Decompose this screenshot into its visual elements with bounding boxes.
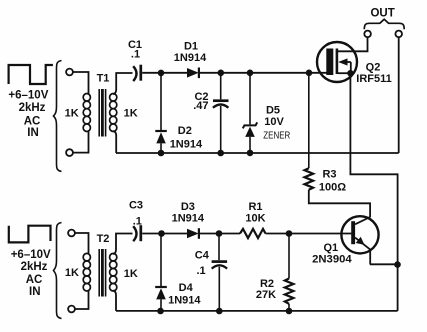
label Q2 IRF511 — [356, 62, 391, 85]
input square-wave icon (top) — [9, 65, 53, 84]
wire R3 to Q1 collector — [309, 190, 370, 217]
wire Q1 emitter to junction — [370, 263, 398, 265]
terminal (T1 primary bottom) — [66, 149, 73, 156]
label C3 .1 — [129, 200, 143, 228]
label +6-10V 2kHz AC IN (bottom) — [11, 249, 51, 298]
node dot (D4 bottom) — [157, 308, 164, 315]
label D3 1N914 — [172, 201, 205, 224]
svg-text:10V: 10V — [264, 116, 284, 128]
label R3 100ohm — [319, 169, 346, 194]
brace (top input) — [54, 61, 62, 172]
svg-text:IN: IN — [27, 127, 39, 139]
svg-text:IRF511: IRF511 — [356, 73, 391, 85]
wire bottom rail — [116, 310, 398, 312]
svg-text:100Ω: 100Ω — [319, 181, 346, 193]
transformer T2 secondary winding — [110, 253, 117, 291]
wire D2 branch — [160, 73, 162, 130]
diode D3 — [187, 228, 199, 239]
svg-text:D2: D2 — [178, 125, 192, 137]
svg-text:Q2: Q2 — [366, 62, 381, 74]
mosfet Q2 — [317, 37, 368, 82]
label Q1 2N3904 — [312, 242, 352, 265]
node dot (D5 junction) — [247, 70, 254, 77]
svg-text:AC: AC — [26, 274, 43, 286]
node dot (C3/D4 junction) — [158, 230, 165, 237]
svg-text:1K: 1K — [65, 267, 79, 279]
terminal (OUT left) — [364, 31, 371, 38]
svg-text:AC: AC — [24, 116, 41, 128]
wire top rail (C1 to D1) — [142, 72, 187, 74]
transformer T1 core — [99, 89, 105, 137]
wire lower rail of top section — [116, 152, 399, 154]
wire R2 to bottom rail — [288, 304, 290, 311]
svg-text:D1: D1 — [184, 41, 198, 53]
wire D5 branch — [249, 73, 251, 125]
node dot (Q1 emitter junction) — [394, 261, 401, 268]
resistor R3 — [305, 168, 314, 190]
capacitor C3 — [133, 225, 141, 241]
capacitor C4 — [212, 262, 228, 311]
label C2 .47 — [193, 91, 208, 112]
wire OUT right to lower rail — [398, 37, 400, 153]
node dot (C2 bottom) — [217, 150, 224, 157]
label D5 10V ZENER — [263, 104, 290, 141]
label R2 27K — [256, 278, 276, 301]
svg-text:2kHz: 2kHz — [19, 102, 46, 114]
terminal (OUT right) — [395, 31, 402, 38]
wire T1 secondary bottom lead — [113, 131, 116, 153]
svg-text:R3: R3 — [322, 169, 336, 181]
resistor R2 — [285, 279, 294, 304]
label D4 1N914 — [168, 282, 201, 306]
wire T2 primary bottom — [75, 291, 89, 309]
node dot (R3 junction) — [306, 70, 313, 77]
transistor Q1 — [341, 216, 378, 264]
svg-text:D4: D4 — [179, 282, 194, 294]
terminal (T1 primary top) — [66, 69, 73, 76]
zener diode D5 — [243, 122, 257, 152]
svg-text:T1: T1 — [97, 73, 110, 85]
svg-text:10K: 10K — [245, 212, 265, 224]
wire T2 secondary top lead — [113, 234, 132, 255]
brace (OUT) — [364, 19, 404, 29]
wire T1 primary top — [73, 72, 89, 94]
wire mid rail (C3 to D3) — [142, 233, 187, 235]
node dot (C2 junction) — [218, 70, 225, 77]
diode D4 — [155, 287, 167, 311]
transformer T2 primary winding — [83, 253, 90, 291]
svg-text:Q1: Q1 — [323, 242, 338, 254]
svg-text:T2: T2 — [97, 233, 110, 245]
resistor R1 — [240, 229, 266, 238]
terminal (T2 primary bottom) — [68, 306, 75, 313]
svg-text:OUT: OUT — [370, 8, 394, 20]
wire C2 branch — [220, 73, 222, 100]
svg-text:1N914: 1N914 — [174, 52, 207, 64]
svg-text:C3: C3 — [129, 200, 143, 212]
node dot (C1/D2 junction) — [158, 70, 165, 77]
wire mid rail (R1 to Q1 base) — [266, 233, 352, 235]
transformer T1 primary winding — [83, 94, 90, 132]
wire Q2 source down — [350, 73, 397, 311]
capacitor C1 — [133, 65, 141, 81]
svg-text:.47: .47 — [193, 100, 208, 112]
svg-text:.1: .1 — [197, 265, 206, 277]
transformer T2 core — [99, 249, 105, 297]
input square-wave icon (bottom) — [9, 226, 51, 243]
wire T1 primary bottom — [73, 132, 89, 153]
wire C4 branch — [218, 234, 220, 261]
svg-text:1K: 1K — [124, 268, 138, 280]
svg-text:1N914: 1N914 — [168, 294, 201, 306]
wire R2 branch — [288, 234, 290, 279]
terminal (T2 primary top) — [68, 230, 75, 237]
node dot (D2 bottom) — [158, 150, 165, 157]
brace (bottom input) — [54, 223, 62, 319]
label C1 .1 — [128, 39, 142, 61]
node dot (R2 bottom) — [286, 308, 293, 315]
wire T1 secondary top lead — [113, 73, 132, 94]
svg-text:.1: .1 — [131, 49, 140, 61]
wire T2 primary top — [75, 233, 89, 254]
capacitor C2 — [213, 101, 229, 153]
svg-text:2N3904: 2N3904 — [312, 253, 352, 265]
svg-text:1K: 1K — [65, 108, 79, 120]
node dot (C4 bottom) — [216, 308, 223, 315]
svg-text:D5: D5 — [266, 104, 280, 116]
svg-text:+6–10V: +6–10V — [11, 249, 51, 261]
svg-text:IN: IN — [29, 286, 41, 298]
svg-text:ZENER: ZENER — [263, 130, 290, 141]
diode D1 — [187, 68, 199, 79]
svg-text:1N914: 1N914 — [170, 138, 203, 150]
svg-text:1K: 1K — [124, 107, 138, 119]
label D2 1N914 — [170, 125, 203, 150]
diode D2 — [155, 131, 167, 153]
label R1 10K — [245, 201, 265, 224]
wire gate node to R3 — [308, 73, 310, 168]
wire mid rail (D3 to R1) — [199, 233, 240, 235]
svg-text:.1: .1 — [133, 215, 142, 227]
label +6-10V 2kHz AC IN (top) — [8, 90, 48, 139]
node dot (C4 junction) — [216, 230, 223, 237]
wire D4 branch — [160, 234, 162, 287]
label D1 1N914 — [174, 41, 207, 64]
svg-text:+6–10V: +6–10V — [8, 90, 48, 102]
wire T2 secondary bottom lead — [113, 290, 116, 311]
node dot (D5 bottom) — [247, 150, 254, 157]
label C4 .1 — [195, 250, 210, 277]
wire top rail (D1 to Q2 gate) — [199, 72, 327, 74]
svg-text:C4: C4 — [195, 250, 210, 262]
svg-text:27K: 27K — [256, 289, 276, 301]
transformer T1 secondary winding — [110, 94, 117, 132]
node dot (R2 junction) — [286, 230, 293, 237]
svg-text:1N914: 1N914 — [172, 212, 205, 224]
svg-text:2kHz: 2kHz — [21, 261, 48, 273]
